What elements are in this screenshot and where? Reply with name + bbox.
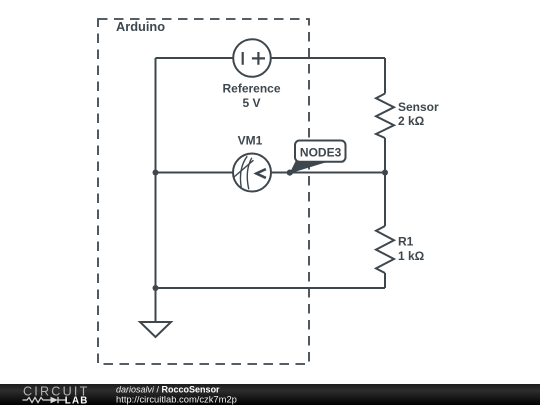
wire left vertical rail <box>155 58 157 322</box>
resistor Sensor <box>376 94 394 139</box>
wire middle horizontal <box>156 172 386 174</box>
voltmeter VM1 <box>233 154 271 192</box>
Arduino dashed enclosure box <box>98 19 309 364</box>
svg-text:5 V: 5 V <box>242 96 260 110</box>
wire top horizontal <box>156 57 386 59</box>
value label Sensor 2 kOhm <box>398 100 439 128</box>
svg-text:VM1: VM1 <box>238 134 263 148</box>
value label Reference 5 V <box>222 82 280 110</box>
voltage source Reference <box>233 39 271 77</box>
svg-text:Reference: Reference <box>222 82 280 96</box>
svg-text:Arduino: Arduino <box>116 19 165 34</box>
junction dot left-middle <box>153 170 159 176</box>
CircuitLab logo <box>23 384 90 405</box>
wire right vertical rail <box>384 58 386 288</box>
ground <box>140 322 171 337</box>
svg-text:Sensor: Sensor <box>398 100 439 114</box>
svg-text:R1: R1 <box>398 234 414 248</box>
svg-text:2 kΩ: 2 kΩ <box>398 114 425 128</box>
node NODE3 flag <box>287 141 346 176</box>
svg-text:LAB: LAB <box>65 395 89 405</box>
resistor R1 <box>376 226 394 273</box>
junction dot right-middle <box>382 170 388 176</box>
value label R1 1 kOhm <box>398 234 425 263</box>
junction dot left-bottom <box>153 285 159 291</box>
svg-text:http://circuitlab.com/czk7m2p: http://circuitlab.com/czk7m2p <box>116 394 237 405</box>
svg-text:1 kΩ: 1 kΩ <box>398 249 425 263</box>
wire bottom horizontal <box>156 287 386 289</box>
svg-text:NODE3: NODE3 <box>300 146 342 160</box>
footer bar <box>0 384 540 405</box>
